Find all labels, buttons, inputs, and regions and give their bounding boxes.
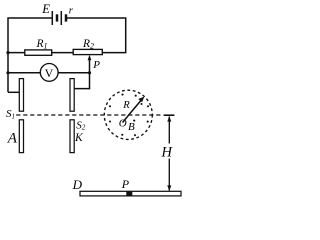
svg-text:r: r xyxy=(69,6,74,17)
field dot 2 xyxy=(121,94,123,96)
svg-text:P: P xyxy=(121,177,130,191)
wire top-right from battery to right corner down to resistor line xyxy=(67,18,126,53)
plate A upper segment xyxy=(19,79,23,112)
junction dot at left wire and resistor line xyxy=(6,51,9,54)
voltmeter V circle xyxy=(40,64,58,82)
battery E r cell1 long plate xyxy=(51,11,53,25)
svg-text:A: A xyxy=(7,130,18,146)
svg-text:R2: R2 xyxy=(82,38,94,51)
rheostat slider arrow stem xyxy=(89,60,91,73)
resistor R2 box (rheostat) xyxy=(73,49,102,54)
wire left feed to left plate xyxy=(8,91,19,93)
svg-text:O: O xyxy=(119,117,127,129)
wire between R1 and R2 xyxy=(52,52,73,54)
svg-text:S2: S2 xyxy=(76,119,86,131)
rheostat slider arrowhead xyxy=(88,55,92,60)
wire voltmeter line right segment xyxy=(58,72,90,74)
field dot 4 xyxy=(147,105,149,107)
svg-text:R1: R1 xyxy=(36,38,48,51)
wire top-left from battery to left corner xyxy=(8,18,52,92)
svg-text:H: H xyxy=(161,145,174,161)
H dimension top tick xyxy=(164,114,175,116)
field dot 1 xyxy=(109,105,111,107)
plate K upper segment xyxy=(70,79,74,112)
svg-text:V: V xyxy=(45,66,54,80)
H dimension vertical line xyxy=(168,117,170,191)
battery cell2 short plate xyxy=(65,14,68,21)
svg-text:K: K xyxy=(74,132,84,144)
svg-text:E: E xyxy=(41,2,50,16)
H dimension down arrowhead xyxy=(167,185,171,191)
battery cell2 long plate xyxy=(60,11,62,25)
junction dot at left wire and voltmeter line xyxy=(6,71,9,74)
svg-text:D: D xyxy=(72,177,83,192)
radius R arrow line xyxy=(123,100,142,123)
wire voltmeter line left segment xyxy=(8,72,41,74)
field dot 9 xyxy=(133,120,135,122)
screen plate bottom xyxy=(80,191,181,196)
dashed beam axis line xyxy=(16,114,162,116)
field dot 3 xyxy=(135,95,137,97)
field dot 5 xyxy=(109,120,111,122)
battery cell1 short plate xyxy=(56,14,59,21)
field dot 8 xyxy=(147,121,149,123)
radius R arrowhead xyxy=(138,97,144,103)
field dot 6 xyxy=(121,134,123,136)
svg-text:P: P xyxy=(92,59,100,71)
svg-text:B: B xyxy=(128,121,135,133)
resistor R1 box xyxy=(25,50,52,55)
svg-text:R: R xyxy=(122,100,130,111)
H dimension up arrowhead xyxy=(167,116,171,122)
dashed magnetic field region circle xyxy=(104,90,152,139)
landing point marker on screen xyxy=(126,191,132,196)
wire resistor line left segment xyxy=(8,52,25,54)
junction dot at slider and voltmeter line xyxy=(88,71,91,74)
wire junction down to right plate xyxy=(74,73,89,89)
field dot 10 xyxy=(140,103,142,105)
field dot 7 xyxy=(134,134,136,136)
plate A lower segment xyxy=(19,120,23,153)
plate K lower segment xyxy=(70,120,74,153)
svg-text:S1: S1 xyxy=(6,108,15,120)
